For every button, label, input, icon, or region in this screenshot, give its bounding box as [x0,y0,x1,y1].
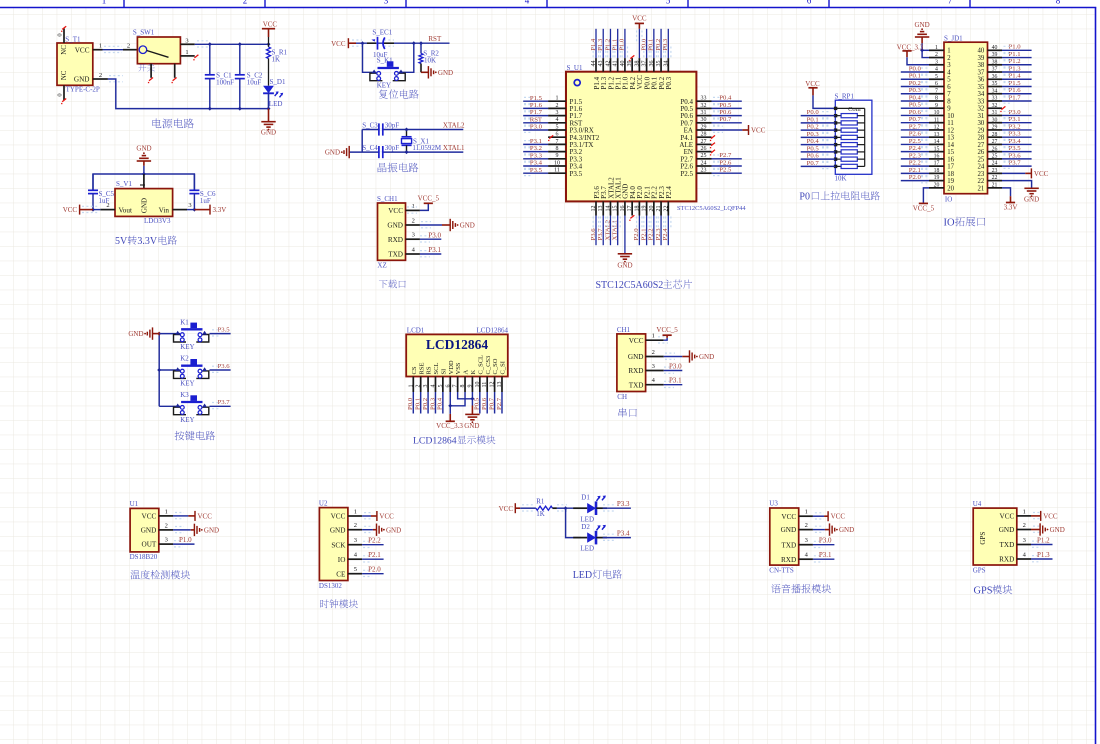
svg-text:P3.7: P3.7 [1009,160,1022,167]
svg-text:36: 36 [649,61,655,67]
svg-text:15: 15 [947,149,954,156]
svg-text:NC: NC [60,45,68,55]
MCU right pins 33-23 [696,100,711,102]
wire D1 to P3.3 [596,507,607,509]
pin 2 S_SW1 [123,49,137,51]
svg-text:P2.7: P2.7 [719,152,732,159]
svg-text:32: 32 [992,103,998,109]
svg-text:P0.3: P0.3 [807,131,820,138]
svg-text:1: 1 [102,0,107,5]
svg-text:4: 4 [935,67,938,73]
svg-text:P3.6: P3.6 [218,363,231,370]
svg-text:30: 30 [701,117,707,123]
wire CH1 RXD P3.0 [664,372,674,374]
MCU left wires and net labels [523,100,548,102]
svg-text:34: 34 [992,88,998,94]
svg-text:P1.1: P1.1 [1009,51,1021,58]
wire JD1 pin 21 to 3.3V [1002,188,1011,196]
svg-text:10: 10 [947,113,954,120]
svg-text:VCC: VCC [751,127,766,135]
svg-text:P3.5: P3.5 [218,326,231,333]
svg-text:3: 3 [935,59,938,65]
svg-text:1: 1 [165,508,168,515]
junction reset left [361,41,365,45]
svg-text:OUT: OUT [142,541,157,549]
svg-text:26: 26 [701,146,707,152]
svg-text:24: 24 [992,161,998,167]
ground GND power circuit [268,109,270,122]
wire K1 to P3.5 [210,333,231,335]
svg-text:34: 34 [978,91,985,98]
svg-text:25: 25 [978,156,985,163]
svg-text:30: 30 [978,120,985,127]
svg-text:P2.1: P2.1 [909,167,921,174]
svg-text:GND: GND [617,262,632,270]
svg-text:2: 2 [416,385,422,388]
svg-text:P3.3: P3.3 [617,500,630,508]
svg-text:P3.0: P3.0 [819,537,832,545]
svg-text:35: 35 [978,84,985,91]
svg-text:17: 17 [627,206,633,212]
JD1 pin rows [929,49,944,51]
capacitor S_C5 1uF [92,174,94,190]
svg-text:2: 2 [243,0,248,5]
svg-text:5: 5 [935,74,938,80]
svg-text:35: 35 [656,61,662,67]
svg-text:1: 1 [935,45,938,51]
svg-text:VCC: VCC [632,14,647,22]
svg-text:1: 1 [947,48,950,55]
svg-text:LCD12864: LCD12864 [426,337,489,352]
svg-text:RS: RS [426,366,433,374]
svg-text:P0.7: P0.7 [488,397,495,410]
svg-text:11.0592M: 11.0592M [412,144,441,152]
svg-text:RXD: RXD [388,236,403,244]
wire GND net from S_T1 pin2 [109,81,123,83]
title 串口 [619,408,637,417]
svg-text:S_SW1: S_SW1 [133,29,155,37]
svg-text:S_EC1: S_EC1 [372,29,392,37]
wire K2 to P3.6 [210,369,231,371]
svg-text:20: 20 [947,185,954,192]
svg-text:12: 12 [947,127,954,134]
svg-text:2: 2 [165,522,168,529]
svg-text:P0.2: P0.2 [422,398,429,410]
svg-text:1: 1 [652,333,655,340]
svg-text:P1.0: P1.0 [619,38,626,51]
wire R1 to junction [553,507,557,509]
svg-text:TXD: TXD [629,381,644,389]
sheet border top edge with zone dividers [0,7,1096,9]
svg-text:7: 7 [948,0,953,5]
module U2 (DS1302) [319,508,348,581]
svg-text:LCD12864: LCD12864 [477,326,509,334]
svg-text:9: 9 [947,106,951,113]
power port 3.3V right [194,209,210,211]
svg-text:P1.2: P1.2 [604,39,611,51]
svg-text:36: 36 [992,74,998,80]
svg-text:14: 14 [934,139,940,145]
svg-text:30pF: 30pF [385,121,400,129]
svg-text:GND: GND [839,526,854,534]
svg-text:31: 31 [701,110,707,116]
svg-text:XTAL1: XTAL1 [611,220,618,241]
svg-text:P3.1: P3.1 [428,246,441,254]
svg-text:16: 16 [947,156,954,163]
svg-text:11: 11 [482,382,488,388]
svg-text:P3.5: P3.5 [530,167,543,174]
svg-text:1K: 1K [272,56,281,64]
svg-text:GPS: GPS [974,586,993,597]
svg-text:CE: CE [336,570,346,578]
svg-text:28: 28 [701,132,707,138]
svg-text:KEY: KEY [180,416,194,424]
title 按键电路 [175,431,216,440]
svg-text:P3.1: P3.1 [819,551,832,559]
resistor S_R1 1K [268,37,270,47]
svg-text:3: 3 [1023,537,1026,544]
wire JD1 pin 22 to GND [1002,181,1032,188]
resistor network S_RP1 10K [835,100,872,174]
svg-text:KEY: KEY [180,343,194,351]
svg-text:P0: P0 [799,192,810,203]
svg-text:U1: U1 [130,500,139,508]
svg-text:P2.4: P2.4 [662,228,669,241]
svg-text:16: 16 [934,154,940,160]
wire D2 to P3.4 [596,537,607,539]
svg-text:S_C4: S_C4 [362,144,378,152]
svg-text:CS: CS [411,366,418,374]
svg-text:P3.0: P3.0 [530,124,543,131]
svg-text:P1.5: P1.5 [530,95,543,102]
svg-text:5: 5 [438,385,444,388]
svg-text:8: 8 [935,96,938,102]
svg-text:P1.5: P1.5 [1009,80,1022,87]
ground GND download port [449,219,451,231]
svg-text:12: 12 [490,382,496,388]
svg-text:P0.6: P0.6 [909,109,922,116]
junction C1 bottom rail [208,107,212,111]
title 下载口 [379,280,406,289]
pin 1 S_SW1 no-connect [180,55,194,57]
svg-text:VCC: VCC [1043,512,1058,520]
wire left vertical crystal [361,130,363,153]
svg-text:S_V1: S_V1 [116,180,132,188]
resistor S_R2 10K [420,43,422,53]
svg-text:P0.2: P0.2 [655,39,662,51]
pin 3 S_V1 Vin [173,209,187,211]
connector S_T1 (TYPE-C-2P) [57,43,93,85]
wire JD1 pin 20 to VCC_5 [923,188,929,204]
svg-text:P1.3: P1.3 [597,38,604,51]
svg-text:GND: GND [1050,526,1065,534]
power port 3.3V JD1 bottom [1006,202,1015,204]
svg-text:GND: GND [325,149,340,157]
svg-text:10K: 10K [424,57,436,65]
svg-text:P1.2: P1.2 [1009,58,1021,65]
svg-text:VCC: VCC [331,513,346,521]
svg-text:GPS: GPS [979,532,987,545]
svg-text:S_U1: S_U1 [567,64,583,72]
svg-text:33: 33 [701,96,707,102]
svg-text:GND: GND [628,353,644,361]
svg-text:5: 5 [354,566,357,573]
svg-text:2: 2 [354,522,357,529]
pin 7 S_V1 top [143,174,145,189]
svg-text:S_C3: S_C3 [362,121,378,129]
MCU left pins 1-11 [548,100,566,102]
svg-text:29: 29 [978,127,985,134]
svg-text:Com: Com [848,106,861,113]
svg-text:P0.6: P0.6 [719,109,732,116]
svg-text:VCC: VCC [388,207,403,215]
svg-text:18: 18 [934,168,940,174]
svg-text:VCC_5: VCC_5 [913,204,935,212]
svg-text:3: 3 [947,62,951,69]
svg-text:2: 2 [805,522,808,529]
svg-text:LED: LED [573,570,592,581]
svg-text:P3.3: P3.3 [1009,131,1022,138]
module U4 (GPS) [973,508,1017,565]
svg-text:7: 7 [947,91,951,98]
svg-text:40: 40 [992,45,998,51]
svg-text:39: 39 [992,52,998,58]
svg-text:C_CS3: C_CS3 [485,356,492,375]
svg-text:3: 3 [188,202,191,209]
title 复位电路 [379,89,419,98]
svg-text:P3.0: P3.0 [669,362,682,370]
svg-text:S_CH1: S_CH1 [377,195,398,203]
junction VCC rail [267,42,271,46]
svg-text:21: 21 [656,206,662,212]
svg-text:P0.0: P0.0 [407,397,414,410]
svg-text:P2.2: P2.2 [909,160,921,167]
svg-text:P0.4: P0.4 [719,95,732,102]
wire LCD VDD pin6 and A pin8 to VCC_3.3 [449,392,451,414]
svg-text:P3.2: P3.2 [1009,123,1021,130]
title for U2 [320,599,358,608]
svg-text:GND: GND [387,222,403,230]
svg-text:VDD: VDD [448,360,455,374]
svg-text:C_SI: C_SI [500,361,507,374]
svg-text:A: A [463,370,470,375]
svg-text:XZ: XZ [377,262,386,270]
svg-text:30: 30 [992,117,998,123]
svg-text:P3.5: P3.5 [1009,145,1022,152]
svg-text:SI: SI [440,369,447,375]
svg-text:GND: GND [915,21,930,29]
svg-text:S_T1: S_T1 [65,36,81,44]
svg-text:P0.4: P0.4 [909,94,922,101]
svg-text:37: 37 [642,61,648,67]
JD1 left wires P0.0-P0.7, P2.7-P2.0 [901,71,929,73]
svg-text:39: 39 [978,55,985,62]
junction reset right of cap [412,41,416,45]
svg-text:R1: R1 [536,497,545,505]
svg-text:19: 19 [947,178,954,185]
svg-text:24: 24 [701,160,707,166]
svg-text:22: 22 [992,175,998,181]
svg-text:1: 1 [99,43,102,50]
svg-text:STC12C5A60S2: STC12C5A60S2 [596,280,664,291]
svg-text:23: 23 [978,171,985,178]
junction C2 bottom rail [238,107,242,111]
svg-text:13: 13 [934,132,940,138]
svg-text:GND: GND [141,198,149,213]
svg-text:RXD: RXD [781,556,796,564]
junction LDO top [142,172,146,176]
svg-text:P1.6: P1.6 [1009,87,1022,94]
wire LDO top rail [143,166,145,174]
svg-text:P3.7: P3.7 [597,228,604,241]
svg-text:24: 24 [978,164,985,171]
svg-text:S_JD1: S_JD1 [944,35,963,43]
svg-text:4: 4 [525,0,530,5]
svg-text:P1.1: P1.1 [611,39,618,51]
svg-text:P2.6: P2.6 [719,159,732,166]
regulator S_V1 LDO3V3 [115,189,173,217]
svg-text:P0.1: P0.1 [909,73,921,80]
pin 3 S_SW1 [180,43,194,45]
wire bus to K2 [159,369,180,371]
wire Vin to 3.3V [187,209,194,211]
svg-text:CN-TTS: CN-TTS [769,566,794,574]
svg-text:41: 41 [613,61,619,67]
svg-text:LED: LED [580,545,594,553]
ground GND JD1 right [1024,187,1038,189]
svg-text:3.3V: 3.3V [137,236,158,247]
svg-text:GND: GND [136,145,151,153]
svg-text:VCC: VCC [263,21,278,29]
wire bus to K3 [159,405,180,407]
svg-text:7: 7 [453,385,459,388]
svg-text:P2.1: P2.1 [640,228,647,240]
pin 2 S_V1 Vout [100,209,115,211]
svg-text:VCC: VCC [805,80,820,88]
LCD data wires and net labels [412,392,414,414]
svg-text:IO: IO [944,218,955,229]
ground GND LCD [465,413,479,415]
svg-text:GND: GND [781,526,797,534]
pin 3 CH1 RXD wire P3.0 [406,238,420,240]
svg-text:P3.1: P3.1 [1009,116,1021,123]
pin 0 bottom of S_T1 with no-connect [63,85,65,100]
svg-text:GND: GND [330,526,346,534]
svg-text:P2.4: P2.4 [665,186,673,199]
svg-text:DS18B20: DS18B20 [130,553,158,561]
svg-text:P0.0: P0.0 [807,109,820,116]
svg-text:P0.7: P0.7 [719,116,732,123]
svg-text:P0.7: P0.7 [807,160,820,167]
svg-text:GND: GND [999,526,1015,534]
svg-text:K1: K1 [180,318,189,326]
svg-text:GND: GND [261,129,276,137]
svg-text:VCC_3.3: VCC_3.3 [436,422,463,430]
svg-text:VCC: VCC [629,337,644,345]
svg-text:D2: D2 [581,523,590,531]
svg-text:18: 18 [634,206,640,212]
pin 2 CH1 GND wire [406,224,420,226]
svg-text:38: 38 [978,62,985,69]
svg-text:1: 1 [185,49,188,56]
svg-text:P0.4: P0.4 [437,397,444,410]
svg-text:P3.4: P3.4 [617,529,630,537]
svg-text:TXD: TXD [781,541,796,549]
svg-text:14: 14 [605,206,611,212]
svg-text:8: 8 [460,385,466,388]
svg-text:43: 43 [598,61,604,67]
svg-text:GND: GND [1024,195,1039,203]
pin 0 top of S_T1 with no-connect [63,29,65,44]
wire XTAL2 net [362,129,463,131]
connector S_CH1 (XZ) [378,203,406,260]
svg-text:P2.3: P2.3 [655,228,662,241]
svg-text:11: 11 [934,117,940,123]
svg-text:VCC: VCC [1000,513,1015,521]
svg-text:P0.5: P0.5 [807,145,820,152]
capacitor S_C2 10uF [239,44,241,75]
wire GND to JD1 pins 1,2 [922,43,929,57]
connector CH1 (CH) serial port [617,334,646,392]
svg-text:21: 21 [978,185,985,192]
svg-text:P1.3: P1.3 [1009,65,1022,72]
svg-text:TXD: TXD [388,251,403,259]
svg-text:32: 32 [701,103,707,109]
svg-text:5: 5 [666,0,671,5]
svg-text:P0.0: P0.0 [909,65,922,72]
wire XTAL1 net [349,151,463,153]
svg-text:10: 10 [554,160,560,166]
svg-text:SCL: SCL [433,363,440,375]
svg-text:Vin: Vin [159,206,170,214]
svg-text:VCC: VCC [63,206,78,214]
svg-text:22: 22 [663,206,669,212]
svg-text:1K: 1K [536,510,545,518]
svg-text:28: 28 [992,132,998,138]
svg-text:SCK: SCK [331,541,346,549]
svg-text:D1: D1 [581,494,590,502]
svg-text:P2.5: P2.5 [909,138,922,145]
svg-text:C_SCL: C_SCL [477,355,484,375]
MCU bottom wires and net labels [595,216,597,246]
pin 1 S_T1 VCC [93,49,103,51]
svg-text:2: 2 [106,202,109,209]
junction LED to bottom rail [267,107,271,111]
svg-text:GPS: GPS [973,566,986,574]
svg-text:2: 2 [652,349,655,356]
svg-text:LDO3V3: LDO3V3 [144,217,171,225]
svg-text:S_RP1: S_RP1 [835,93,855,101]
svg-text:23: 23 [992,168,998,174]
svg-text:44: 44 [591,61,597,67]
svg-text:4: 4 [556,117,559,123]
svg-text:RST: RST [530,116,542,123]
svg-text:P3.1: P3.1 [530,138,542,145]
svg-text:GND: GND [386,526,401,534]
wire right branch to key [399,43,414,72]
svg-text:VCC: VCC [499,505,514,513]
svg-text:0: 0 [57,93,64,96]
svg-text:5: 5 [947,77,951,84]
svg-text:1: 1 [408,385,414,388]
svg-text:P3.5: P3.5 [570,170,583,178]
svg-text:6: 6 [807,0,812,5]
svg-text:Vout: Vout [119,206,132,214]
svg-text:2: 2 [935,52,938,58]
wire key bus vertical [158,334,160,407]
svg-text:3: 3 [805,537,808,544]
svg-text:12: 12 [591,206,597,212]
